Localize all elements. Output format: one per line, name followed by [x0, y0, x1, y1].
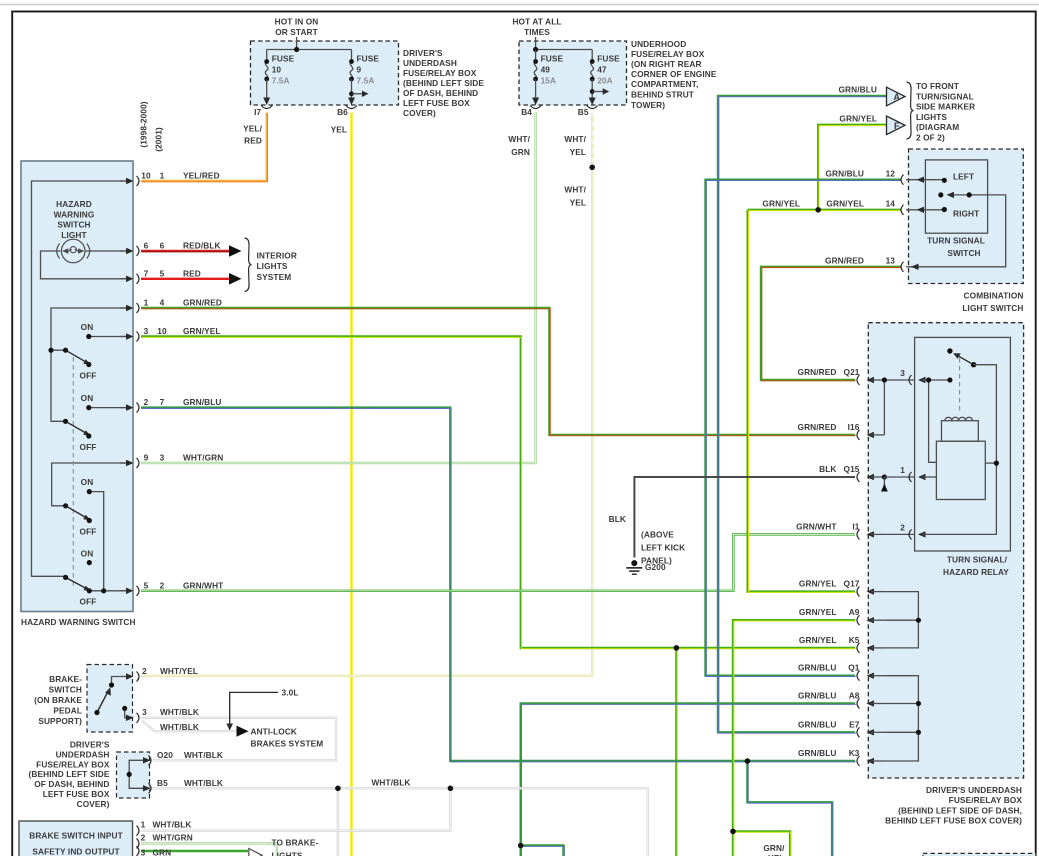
svg-text:12: 12: [886, 169, 896, 179]
wire RED: hazard pin 7 to interior lights: [141, 278, 230, 280]
svg-text:GRN/YEL: GRN/YEL: [183, 326, 221, 336]
svg-text:FUSE: FUSE: [357, 54, 380, 64]
turn signal switch internals: [906, 172, 1006, 271]
svg-text:F: F: [894, 121, 900, 131]
svg-text:GRN/: GRN/: [763, 843, 785, 853]
svg-text:2: 2: [160, 580, 165, 590]
svg-text:TO FRONT: TO FRONT: [916, 81, 959, 91]
turn signal switch inner box: [925, 160, 987, 258]
svg-text:UNDERDASH: UNDERDASH: [403, 58, 457, 68]
svg-text:2: 2: [142, 666, 147, 676]
svg-text:FUSE/RELAY BOX: FUSE/RELAY BOX: [36, 759, 110, 769]
svg-text:ANTI-LOCK: ANTI-LOCK: [251, 727, 298, 737]
svg-text:5: 5: [144, 580, 149, 590]
svg-text:4: 4: [160, 298, 165, 308]
svg-text:TURN/SIGNAL: TURN/SIGNAL: [916, 91, 974, 101]
small fuse box internals O20 B5: [127, 750, 223, 793]
svg-text:7: 7: [144, 268, 149, 278]
wire WHT/BLK: brake switch pin 3 to anti-lock brakes: [142, 721, 237, 732]
combination light switch box (dashed): [909, 149, 1024, 313]
svg-text:WHT/: WHT/: [508, 134, 530, 144]
wire WHT/YEL dashed segment from B5: [591, 113, 593, 165]
svg-text:RED/BLK: RED/BLK: [183, 241, 221, 251]
wire WHT/YEL: splice to brake switch pin 2: [141, 170, 592, 676]
svg-text:LEFT FUSE BOX: LEFT FUSE BOX: [43, 789, 110, 799]
svg-text:E7: E7: [849, 719, 860, 729]
triangle connector F: [887, 116, 906, 135]
brake switch input / safety ind output box: [19, 821, 133, 856]
svg-text:UNDERHOOD: UNDERHOOD: [631, 39, 686, 49]
svg-text:BRAKE SWITCH INPUT: BRAKE SWITCH INPUT: [29, 831, 123, 841]
svg-text:GRN/BLU: GRN/BLU: [798, 663, 837, 673]
anti-lock brakes system arrow: [237, 726, 324, 749]
svg-text:SAFETY IND OUTPUT: SAFETY IND OUTPUT: [32, 847, 119, 856]
svg-text:GRN/RED: GRN/RED: [798, 367, 837, 377]
svg-text:(ON BRAKE: (ON BRAKE: [34, 695, 82, 705]
svg-text:GRN/YEL: GRN/YEL: [839, 113, 877, 123]
svg-text:G200: G200: [645, 562, 666, 572]
svg-text:OFF: OFF: [80, 442, 97, 452]
wire GRN/BLU: relay A8 down off page: [521, 704, 856, 856]
wire GRN/BLU branch: K3 splice down off page: [747, 761, 832, 856]
svg-text:GRN/BLU: GRN/BLU: [798, 748, 837, 758]
svg-text:10: 10: [157, 326, 167, 336]
svg-text:HAZARD RELAY: HAZARD RELAY: [943, 567, 1009, 577]
svg-text:TURN SIGNAL: TURN SIGNAL: [927, 236, 985, 246]
svg-text:RED: RED: [244, 136, 262, 146]
hazard pin arrows and connectors: [120, 171, 167, 596]
svg-text:2: 2: [900, 523, 905, 533]
svg-text:LEFT KICK: LEFT KICK: [641, 543, 685, 553]
svg-text:OF DASH, BEHIND: OF DASH, BEHIND: [34, 779, 109, 789]
svg-text:1: 1: [144, 298, 149, 308]
svg-text:GRN/WHT: GRN/WHT: [183, 580, 223, 590]
svg-text:HOT AT ALL: HOT AT ALL: [512, 17, 561, 27]
fuse 47 (underhood): [578, 50, 620, 118]
hazard switch 2: [63, 393, 97, 452]
svg-text:2 OF 2): 2 OF 2): [916, 133, 945, 143]
wire YEL: fuse 9 B6 down off page: [350, 113, 352, 856]
wire GRN/YEL: splice down to relay Q17: [748, 210, 856, 593]
svg-text:SWITCH: SWITCH: [947, 248, 980, 258]
svg-text:LIGHTS: LIGHTS: [272, 851, 303, 856]
svg-text:BLK: BLK: [609, 514, 626, 524]
hazard warning switch box: [21, 161, 136, 627]
hazard box internal wiring: [32, 181, 132, 591]
svg-text:GRN/BLU: GRN/BLU: [798, 719, 837, 729]
svg-text:Q15: Q15: [844, 464, 860, 474]
wire GRN/BLU: hazard pin 2 to relay K3: [141, 408, 856, 762]
turn signal switch pin connectors 12 14 13: [762, 169, 903, 272]
svg-text:FUSE: FUSE: [541, 54, 564, 64]
svg-text:DRIVER'S: DRIVER'S: [403, 48, 443, 58]
interior lights system arrows and brace: [229, 238, 297, 292]
wire GRN: safety ind output pin 3 to brake lights: [141, 850, 248, 852]
svg-text:GRN/RED: GRN/RED: [183, 298, 222, 308]
svg-text:13: 13: [886, 256, 896, 266]
svg-text:(BEHIND LEFT SIDE OF DASH,: (BEHIND LEFT SIDE OF DASH,: [898, 805, 1022, 815]
svg-text:COVER): COVER): [77, 799, 110, 809]
svg-text:LIGHT: LIGHT: [61, 230, 86, 240]
svg-text:BEHIND STRUT: BEHIND STRUT: [631, 90, 694, 100]
junction splices (dots): [335, 165, 821, 849]
svg-text:COVER): COVER): [403, 108, 436, 118]
svg-text:WHT/: WHT/: [564, 134, 586, 144]
relay internal wiring: switch to pin 2: [922, 365, 999, 535]
underhood fuse/relay box (top right, dashed): [512, 17, 716, 111]
driver's underdash fuse/relay box (top, dashed): [251, 17, 485, 119]
svg-text:SYSTEM: SYSTEM: [257, 272, 292, 282]
svg-text:WHT/BLK: WHT/BLK: [372, 778, 411, 788]
svg-text:(BEHIND LEFT SIDE: (BEHIND LEFT SIDE: [403, 78, 484, 88]
svg-text:HAZARD WARNING SWITCH: HAZARD WARNING SWITCH: [21, 617, 136, 627]
svg-text:COMPARTMENT,: COMPARTMENT,: [631, 79, 698, 89]
svg-text:SWITCH: SWITCH: [49, 685, 82, 695]
svg-text:INTERIOR: INTERIOR: [257, 250, 297, 260]
svg-text:WHT/GRN: WHT/GRN: [153, 833, 193, 843]
svg-text:O20: O20: [157, 750, 173, 760]
wire GRN/RED: hazard pin 1 to relay I16: [141, 308, 856, 436]
svg-text:3.0L: 3.0L: [282, 688, 299, 698]
brake switch box (dashed): [34, 665, 132, 733]
wire GRN/YEL: relay A9 down off page: [733, 620, 856, 856]
svg-text:WHT/BLK: WHT/BLK: [184, 778, 223, 788]
relay Q21/I16 internal link: [882, 377, 915, 435]
wire WHT/BLK branch: splice down off page: [337, 788, 339, 856]
svg-text:ON: ON: [81, 549, 94, 559]
triangle connector A: [887, 87, 906, 106]
svg-text:14: 14: [886, 199, 896, 209]
svg-text:5: 5: [160, 268, 165, 278]
svg-text:ON: ON: [81, 477, 94, 487]
svg-text:GRN: GRN: [511, 147, 530, 157]
relay inner pin connectors 3 1 2: [900, 368, 925, 539]
hazard switch light lamp: [57, 239, 90, 263]
svg-text:GRN/YEL: GRN/YEL: [826, 199, 864, 209]
svg-text:GRN/WHT: GRN/WHT: [796, 521, 836, 531]
svg-text:3: 3: [141, 847, 146, 856]
hazard switch 1: [48, 322, 96, 381]
svg-text:WHT/GRN: WHT/GRN: [183, 453, 223, 463]
svg-text:FUSE/RELAY BOX: FUSE/RELAY BOX: [403, 68, 477, 78]
svg-text:9: 9: [144, 453, 149, 463]
wire WHT/BLK: B5 row down off page: [141, 788, 648, 856]
svg-text:OR START: OR START: [275, 27, 318, 37]
svg-text:GRN/YEL: GRN/YEL: [799, 607, 837, 617]
svg-text:1: 1: [160, 171, 165, 181]
svg-text:A: A: [894, 92, 901, 102]
turn signal/hazard relay inner box: [915, 337, 1011, 576]
relay switch contact: [947, 348, 976, 367]
wire GRN/YEL branch: K5 splice down off page: [675, 648, 678, 856]
svg-text:3: 3: [900, 368, 905, 378]
relay mechanical link (dashed): [959, 358, 961, 414]
svg-text:RIGHT: RIGHT: [953, 209, 979, 219]
svg-text:6: 6: [144, 241, 149, 251]
svg-text:10: 10: [141, 171, 151, 181]
svg-text:LEFT FUSE BOX: LEFT FUSE BOX: [403, 98, 470, 108]
svg-text:2: 2: [144, 397, 149, 407]
svg-text:7: 7: [160, 397, 165, 407]
svg-text:10: 10: [272, 65, 282, 75]
svg-text:RED: RED: [183, 268, 201, 278]
svg-text:WHT/YEL: WHT/YEL: [160, 666, 198, 676]
svg-text:15A: 15A: [541, 76, 557, 86]
svg-text:FUSE: FUSE: [272, 54, 295, 64]
svg-text:3: 3: [144, 326, 149, 336]
hazard switch 3: [63, 477, 96, 537]
svg-text:1: 1: [141, 819, 146, 829]
3.0L callout wire: [226, 688, 298, 731]
svg-text:YEL/RED: YEL/RED: [183, 171, 220, 181]
svg-text:TO BRAKE-: TO BRAKE-: [272, 838, 319, 848]
svg-text:YEL/: YEL/: [243, 123, 262, 133]
fuse 9 (driver underdash): [337, 50, 379, 118]
svg-text:YEL: YEL: [570, 197, 586, 207]
svg-text:SIDE MARKER: SIDE MARKER: [916, 102, 975, 112]
svg-text:WHT/: WHT/: [564, 184, 586, 194]
svg-text:A9: A9: [849, 607, 860, 617]
wire WHT/GRN: safety ind output pin 2 down off page: [141, 843, 277, 856]
svg-text:Q21: Q21: [844, 367, 860, 377]
small driver's underdash fuse/relay box (dashed): [29, 740, 150, 809]
svg-text:GRN/BLU: GRN/BLU: [798, 691, 837, 701]
svg-text:SUPPORT): SUPPORT): [38, 716, 82, 726]
svg-text:ON: ON: [81, 393, 94, 403]
svg-text:I1: I1: [852, 521, 859, 531]
svg-text:HAZARD: HAZARD: [56, 199, 92, 209]
svg-text:SWITCH: SWITCH: [57, 220, 90, 230]
svg-text:BLK: BLK: [819, 464, 836, 474]
svg-text:CORNER OF ENGINE: CORNER OF ENGINE: [631, 69, 717, 79]
svg-text:GRN/RED: GRN/RED: [825, 256, 864, 266]
svg-text:FUSE/RELAY BOX: FUSE/RELAY BOX: [949, 795, 1023, 805]
driver's underdash fuse/relay box (right, large dashed): [868, 323, 1023, 826]
svg-text:GRN: GRN: [153, 847, 172, 856]
brake switch internals: [94, 666, 199, 732]
svg-text:9: 9: [357, 65, 362, 75]
bottom-right dashed box (cut off): [923, 853, 1036, 856]
relay internal wiring: pin 3 to contacts and coil: [922, 377, 953, 462]
svg-text:WHT/BLK: WHT/BLK: [160, 722, 199, 732]
svg-text:YEL: YEL: [331, 125, 347, 135]
svg-text:K3: K3: [849, 748, 860, 758]
hazard pin wire name labels: [183, 171, 223, 591]
relay box outer pin connectors and labels: [796, 367, 884, 766]
svg-text:WHT/BLK: WHT/BLK: [160, 707, 199, 717]
relay coil and body: [936, 417, 985, 499]
svg-text:TIMES: TIMES: [524, 27, 550, 37]
svg-text:WARNING: WARNING: [54, 209, 95, 219]
svg-text:OFF: OFF: [80, 527, 97, 537]
svg-text:LIGHT SWITCH: LIGHT SWITCH: [962, 303, 1023, 313]
wire GRN/RED: turn signal switch pin 13 to relay Q21: [761, 267, 902, 381]
hot at all times bus: [533, 37, 592, 52]
svg-text:I16: I16: [848, 422, 860, 432]
svg-text:BRAKE-: BRAKE-: [49, 674, 82, 684]
svg-text:(ABOVE: (ABOVE: [641, 530, 674, 540]
svg-text:(DIAGRAM: (DIAGRAM: [916, 122, 959, 132]
svg-text:3: 3: [142, 707, 147, 717]
svg-text:I7: I7: [254, 107, 261, 117]
svg-text:GRN/BLU: GRN/BLU: [839, 84, 878, 94]
wire WHT/BLK: brake switch pin 3 to O20: [141, 718, 336, 761]
svg-text:GRN/YEL: GRN/YEL: [799, 579, 837, 589]
svg-text:TURN SIGNAL/: TURN SIGNAL/: [947, 555, 1008, 565]
svg-text:BEHIND LEFT FUSE BOX COVER): BEHIND LEFT FUSE BOX COVER): [885, 816, 1022, 826]
svg-text:K5: K5: [849, 635, 860, 645]
wire WHT/BLK branch: splice to brake switch input pin 1: [141, 788, 450, 830]
svg-text:GRN/YEL: GRN/YEL: [799, 635, 837, 645]
svg-text:LEFT: LEFT: [953, 172, 974, 182]
svg-text:B5: B5: [578, 107, 589, 117]
svg-text:COMBINATION: COMBINATION: [964, 291, 1024, 301]
svg-text:TOWER): TOWER): [631, 100, 665, 110]
svg-text:FUSE/RELAY BOX: FUSE/RELAY BOX: [631, 49, 705, 59]
svg-text:GRN/YEL: GRN/YEL: [762, 199, 800, 209]
svg-text:7.5A: 7.5A: [357, 76, 375, 86]
wire RED/BLK: hazard pin 6 to interior lights: [141, 250, 231, 253]
svg-text:WHT/BLK: WHT/BLK: [184, 750, 223, 760]
svg-text:Q1: Q1: [848, 663, 860, 673]
svg-text:3: 3: [160, 453, 165, 463]
wire BLK: relay Q15 to ground G200: [634, 477, 855, 558]
svg-text:Q17: Q17: [844, 579, 860, 589]
svg-text:WHT/BLK: WHT/BLK: [153, 819, 192, 829]
svg-text:49: 49: [541, 65, 551, 75]
svg-text:7.5A: 7.5A: [272, 76, 290, 86]
wire GRN/BLU: triangle A to relay E7: [718, 96, 887, 733]
top gray rule: [0, 4, 1039, 6]
wire GRN/YEL: triangle F to splice: [818, 125, 887, 211]
wire YEL/RED: fuse 10 I7 to hazard pin 10: [141, 113, 268, 182]
wire GRN/YEL: hazard pin 3 to relay K5: [141, 337, 856, 649]
svg-text:OFF: OFF: [80, 371, 97, 381]
fuse exit wire color labels: [243, 123, 586, 207]
svg-text:UNDERDASH: UNDERDASH: [56, 749, 110, 759]
ground G200: [609, 514, 686, 574]
brake switch input box pin connectors: [137, 819, 193, 856]
svg-text:2: 2: [141, 833, 146, 843]
svg-text:BRAKES SYSTEM: BRAKES SYSTEM: [251, 739, 324, 749]
relay I1 internal wire: [884, 533, 914, 535]
wire GRN/BLU branch: A8 splice right down off page: [521, 846, 565, 856]
wire GRN/YEL branch: A9 splice right down off page: [733, 831, 791, 856]
brace and label: to front turn/signal side marker lights: [839, 81, 976, 143]
relay internal wiring: pin 1 to coil body: [922, 476, 936, 478]
svg-text:(BEHIND LEFT SIDE: (BEHIND LEFT SIDE: [29, 769, 110, 779]
hazard mechanical link (dashed): [72, 357, 74, 588]
svg-text:HOT IN ON: HOT IN ON: [275, 17, 319, 27]
fuse 10 (driver underdash): [254, 50, 294, 118]
hot in on bus: [267, 37, 352, 52]
svg-text:6: 6: [160, 241, 165, 251]
svg-text:ON: ON: [81, 322, 94, 332]
wire GRN/BLU: turn signal switch pin 12 to relay Q1: [706, 180, 902, 677]
fuse 49 (underhood): [521, 50, 563, 118]
svg-text:LIGHTS: LIGHTS: [257, 261, 288, 271]
svg-text:(1998-2000): (1998-2000): [139, 101, 149, 147]
svg-text:DRIVER'S UNDERDASH: DRIVER'S UNDERDASH: [926, 785, 1022, 795]
relay internal bracket Q1-A8-E7-K3: [884, 676, 921, 761]
svg-text:DRIVER'S: DRIVER'S: [70, 740, 110, 750]
svg-text:1: 1: [900, 465, 905, 475]
svg-text:YEL: YEL: [570, 147, 586, 157]
svg-text:LIGHTS: LIGHTS: [916, 112, 947, 122]
relay internal bracket Q17-A9-K5: [884, 592, 921, 648]
svg-text:OFF: OFF: [80, 597, 97, 607]
svg-text:20A: 20A: [597, 76, 613, 86]
svg-text:GRN/BLU: GRN/BLU: [826, 169, 865, 179]
to brake-lights triangle connector: [249, 838, 319, 856]
wire GRN/YEL: turn signal switch pin 14 row: [748, 209, 902, 212]
svg-text:47: 47: [597, 65, 607, 75]
relay Q15 internal stub with arrow: [881, 474, 915, 491]
svg-text:B6: B6: [337, 107, 348, 117]
svg-text:FUSE: FUSE: [597, 54, 620, 64]
svg-text:B5: B5: [157, 778, 168, 788]
hazard switch 4: [63, 549, 106, 607]
svg-text:GRN/BLU: GRN/BLU: [183, 397, 222, 407]
svg-text:B4: B4: [521, 107, 532, 117]
svg-text:GRN/RED: GRN/RED: [798, 422, 837, 432]
wire GRN/WHT: hazard pin 5 to relay I1: [141, 534, 855, 590]
svg-text:PEDAL: PEDAL: [53, 706, 82, 716]
wire WHT/GRN: fuse 49 B4 to hazard pin 9: [141, 113, 536, 464]
svg-text:(ON RIGHT REAR: (ON RIGHT REAR: [631, 59, 702, 69]
svg-text:OF DASH, BEHIND: OF DASH, BEHIND: [403, 88, 478, 98]
svg-text:A8: A8: [849, 691, 860, 701]
svg-text:(2001): (2001): [154, 127, 164, 152]
